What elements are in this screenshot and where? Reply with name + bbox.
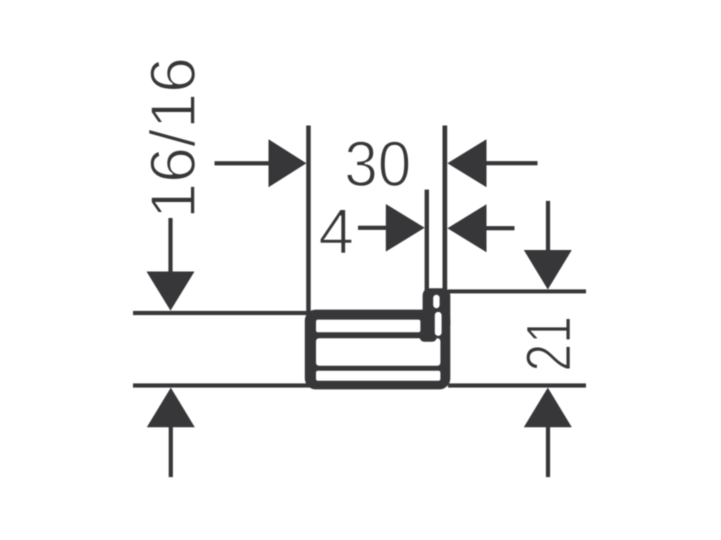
profile hook slot (white) <box>433 295 439 308</box>
extension line right (hook right, x=445) <box>443 126 448 292</box>
dim 21 lower leader line <box>546 425 550 477</box>
dim 30 right-pointing arrow <box>269 139 307 187</box>
profile hook gap strip (white) <box>435 312 442 336</box>
hook-top level line right (y=291.5) <box>448 289 586 293</box>
dim 30 left tail line <box>215 161 272 165</box>
profile hook (top-right riser) <box>423 288 451 325</box>
dim 16/16 upper leader line <box>168 218 172 276</box>
dim 4 right tail line <box>483 226 515 230</box>
profile bottom channel (white slot) <box>316 371 440 381</box>
dim 30 left-pointing arrow <box>447 139 486 187</box>
dim 16/16 down arrow <box>147 272 195 311</box>
dim 4 right-pointing arrow <box>386 204 425 252</box>
dim 4 left tail line <box>358 226 390 230</box>
extension line left (top of profile, x=308) <box>306 126 311 312</box>
svg-text:4: 4 <box>318 196 354 268</box>
glass line lower-left (y=385.5) <box>133 383 310 387</box>
svg-text:21: 21 <box>513 316 585 372</box>
profile body (black base) <box>305 310 451 390</box>
dim 21 up arrow <box>524 388 572 428</box>
profile top channel (white slot) <box>316 320 420 333</box>
glass line upper-left (y=313) <box>133 311 310 315</box>
dim 16/16 lower leader line <box>169 425 173 477</box>
extension line middle (hook left, x=427) <box>425 190 429 292</box>
dim 21 upper leader line <box>546 201 550 254</box>
dim 16/16 up arrow <box>147 388 195 428</box>
profile finger curl dip <box>420 331 438 342</box>
profile middle cavity (white) <box>316 338 440 365</box>
bottom level line right (y=385.5) <box>448 383 586 387</box>
dim 4 left-pointing arrow <box>447 204 486 252</box>
dim 21 down arrow <box>524 250 572 290</box>
svg-text:16/16: 16/16 <box>137 57 209 219</box>
svg-text:30: 30 <box>344 128 411 200</box>
dim 30 right tail line <box>483 161 538 165</box>
